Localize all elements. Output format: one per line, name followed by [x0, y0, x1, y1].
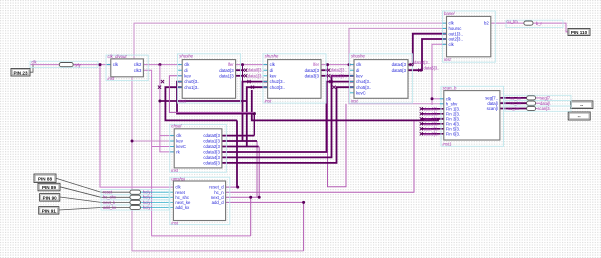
wire clk top route to banel clk [134, 23, 447, 59]
wire bus cdata3 row to shushe3 chu4 [222, 82, 354, 152]
tap data0 of shushe1 [244, 69, 247, 78]
wire bus cho3 riser to shushe2 [247, 87, 268, 146]
block U8 umshsi [170, 176, 230, 225]
svg-text:add_kx: add_kx [103, 205, 116, 210]
wire PIN 90 diagonal [60, 197, 130, 202]
pin output box seg [571, 101, 593, 109]
svg-text:out2[3..: out2[3.. [449, 37, 463, 42]
svg-text:seg[7..: seg[7.. [485, 96, 498, 101]
svg-text:--: -- [580, 103, 584, 108]
svg-text:banel: banel [444, 11, 456, 16]
pin output box scan [568, 112, 590, 120]
wire bus cdata4 row to shushe3 kev [222, 76, 354, 158]
svg-text:cdata2[3: cdata2[3 [203, 144, 220, 149]
node junction next_d a [249, 196, 252, 199]
svg-text:seg[7..: seg[7.. [540, 95, 552, 100]
buffer input add_kx [130, 205, 141, 209]
node junction clkp [431, 97, 434, 100]
wire bus data0 data1 stubs of shushe1 [236, 70, 244, 76]
wire clkdiv bottom branch loop [132, 77, 304, 251]
svg-text:clk: clk [356, 62, 362, 67]
svg-text:data4[3: data4[3 [392, 62, 407, 67]
block U2 shushe1 [178, 54, 241, 104]
svg-text:tvly: tvly [75, 62, 82, 67]
wire buffer outputs to umshsi ports [141, 192, 174, 207]
wire PIN 89 diagonal [60, 187, 130, 198]
svg-text:PIN 23: PIN 23 [13, 71, 27, 76]
svg-text:di: di [270, 68, 273, 73]
svg-text:scan[3.: scan[3. [538, 106, 551, 111]
svg-text:data4[3..: data4[3.. [414, 60, 430, 65]
svg-text:lfer: lfer [313, 62, 319, 67]
svg-text:data5[3..: data5[3.. [424, 131, 440, 136]
svg-text:PIN 91: PIN 91 [42, 209, 56, 214]
svg-text:clk: clk [270, 62, 276, 67]
svg-text:kevC: kevC [176, 144, 186, 149]
wire PIN 91 diagonal [59, 208, 130, 211]
svg-text:inst: inst [351, 99, 358, 104]
svg-text:cu_tm: cu_tm [508, 106, 520, 111]
wire bus link below shushe1 [160, 100, 247, 102]
wire bus chu0 riser to shushe1 [165, 87, 237, 120]
svg-text:kevC: kevC [356, 90, 366, 95]
wire data after buffer [536, 102, 540, 104]
svg-text:lfer: lfer [228, 62, 234, 67]
svg-text:add_kx: add_kx [175, 205, 190, 210]
wire bus cdata1 row [222, 140, 257, 142]
buffer input reset [101, 190, 169, 210]
svg-text:PIN 110: PIN 110 [571, 30, 588, 35]
wire bus cdata2 row [222, 146, 259, 148]
block U6 scan_b [440, 86, 504, 147]
svg-text:di: di [184, 68, 187, 73]
wire bus mid riser [253, 114, 255, 136]
wire bus data4 to banel out1 [408, 34, 447, 65]
svg-text:b_r: b_r [536, 21, 543, 26]
svg-text:clk_divout: clk_divout [108, 54, 128, 59]
svg-text:scan_b: scan_b [443, 86, 457, 91]
node junction clk2 b [241, 63, 244, 66]
node junction clk [99, 63, 102, 66]
svg-text:PIN 89: PIN 89 [42, 185, 56, 190]
svg-text:data0[3..: data0[3.. [248, 68, 264, 73]
pin PIN 91 input [39, 207, 59, 215]
node junction clk2 a [158, 63, 161, 66]
pin PIN 89 input [38, 183, 60, 191]
node junction chsel feed [158, 100, 161, 103]
svg-text:umshsi: umshsi [171, 176, 186, 181]
svg-text:data1[3: data1[3 [219, 73, 234, 78]
svg-text:kev: kev [356, 73, 364, 78]
svg-text:cdata3[3: cdata3[3 [203, 150, 220, 155]
buffer input hc_shc [130, 195, 141, 199]
svg-text:inst: inst [171, 168, 178, 173]
block U5 banel [443, 11, 496, 62]
wire umshsi reset_d output [226, 186, 238, 188]
svg-text:cho3[3..: cho3[3.. [270, 85, 285, 90]
svg-text:data[\: data[\ [540, 101, 551, 106]
wire label data0 data1 [248, 68, 264, 79]
svg-text:PIN 88: PIN 88 [38, 176, 52, 181]
buffer output seg [505, 95, 571, 100]
svg-text:inst1: inst1 [443, 141, 453, 146]
svg-text:cu_tm: cu_tm [510, 101, 522, 106]
svg-text:shushe: shushe [179, 54, 193, 59]
svg-text:data0[3: data0[3 [219, 68, 234, 73]
svg-text:cu_tm: cu_tm [507, 19, 519, 24]
svg-text:chsel: chsel [171, 124, 182, 129]
wire PIN 88 diagonal [56, 178, 130, 192]
wire bus cdata5 row to shushe3 cho5 [222, 87, 354, 163]
svg-text:data5[3..: data5[3.. [424, 66, 440, 71]
svg-text:cdata0[3: cdata0[3 [203, 133, 220, 138]
wire bus data2 data3 stubs of shushe2 [321, 70, 327, 76]
wire label data4 data5 [414, 60, 439, 71]
svg-text:data2[3..: data2[3.. [331, 68, 347, 73]
wire bus scan output [500, 108, 527, 110]
svg-text:shushe: shushe [265, 54, 279, 59]
svg-text:cho1[3..: cho1[3.. [184, 85, 199, 90]
node junction add_d [302, 201, 305, 204]
svg-text:data5[3: data5[3 [392, 68, 407, 73]
wire umshsi add_d output [226, 202, 304, 251]
buffer input next_k [130, 200, 141, 204]
svg-text:clk: clk [176, 133, 182, 138]
svg-text:kev: kev [184, 73, 192, 78]
wire scan after buffer [536, 108, 538, 110]
svg-text:data3[3..: data3[3.. [331, 73, 347, 78]
node junction bus tap a [253, 112, 256, 115]
svg-text:inst: inst [108, 76, 115, 81]
svg-text:cho5[3..: cho5[3.. [356, 85, 371, 90]
svg-text:clk3: clk3 [134, 68, 142, 73]
wire umshsi next_d output [226, 141, 260, 236]
svg-text:inst: inst [171, 220, 178, 225]
node junction reset_d [236, 186, 239, 189]
svg-text:Fin 6[3.: Fin 6[3. [446, 131, 460, 136]
wire bus cho1 riser to shushe1 [177, 82, 254, 114]
wire clk vertical branch down to umshsi clk [100, 65, 173, 188]
buffer output data [505, 101, 571, 106]
tap Fin inputs of scan_b [420, 107, 423, 135]
svg-text:PIN 90: PIN 90 [43, 196, 57, 201]
wire PIN 23 stub [30, 65, 33, 73]
wire clk3 long vertical via kevC [143, 70, 250, 236]
pin PIN 90 input [40, 194, 60, 202]
svg-text:chu4[3..: chu4[3.. [356, 79, 371, 84]
pin PIN 110 output [568, 29, 590, 36]
svg-text:clk: clk [449, 42, 455, 47]
tap data4 data5 of shushe3 [410, 63, 422, 72]
wire chsel clk and rk feed [160, 65, 174, 152]
svg-text:cu_tm: cu_tm [510, 95, 522, 100]
svg-text:scan[\: scan[\ [487, 106, 499, 111]
buffer input clk [30, 61, 98, 67]
svg-text:clk: clk [184, 62, 190, 67]
svg-text:kev: kev [270, 73, 278, 78]
node junction kev branch [131, 140, 134, 143]
svg-text:di: di [356, 68, 359, 73]
svg-text:add_d: add_d [212, 200, 225, 205]
wire bus seg output [500, 97, 527, 99]
svg-text:kev: kev [176, 139, 184, 144]
node junction next_d b [258, 196, 261, 199]
wire bus Fin input stubs of scan_b [421, 109, 444, 134]
block U1 clk_divout [106, 54, 148, 81]
wire bus cdata0 row down to reset_d [222, 120, 254, 187]
tap chu cho of shushe3 [329, 80, 335, 89]
svg-text:data3[3: data3[3 [305, 73, 320, 78]
wire bus data output [500, 102, 527, 104]
svg-text:cdata1[3: cdata1[3 [203, 139, 220, 144]
wire b2 output to PIN 110 [491, 23, 568, 32]
wire bus chu2 riser to shushe2 [243, 65, 268, 141]
wire seg after buffer [536, 97, 540, 99]
svg-text:--: -- [578, 114, 582, 119]
wire clk net from PIN 23 to buffer to clkdiv [30, 64, 111, 66]
wire clk2 row between blocks [143, 64, 354, 66]
svg-text:hc/y: hc/y [143, 205, 151, 210]
node junction clk2 tap d [348, 63, 351, 66]
svg-text:chu0[3..: chu0[3.. [184, 79, 199, 84]
wire label data2 data3 [331, 68, 347, 79]
tap chu cho of shushe1 [158, 80, 164, 89]
block U3 shushe2 [263, 54, 326, 104]
svg-text:hoursc: hoursc [449, 26, 463, 31]
wire bus long row to scan_b Fin3 [252, 90, 444, 120]
svg-text:inst: inst [444, 57, 451, 62]
svg-text:cdata5[3: cdata5[3 [203, 161, 220, 166]
svg-text:chu2[3..: chu2[3.. [270, 79, 285, 84]
svg-text:b2: b2 [484, 21, 489, 26]
svg-text:clk: clk [449, 21, 455, 26]
svg-text:data[\: data[\ [487, 101, 499, 106]
wire umshsi hc_n output loop [226, 65, 414, 193]
svg-text:cdata4[3: cdata4[3 [203, 155, 220, 160]
tap chu cho of shushe2 [247, 80, 254, 89]
svg-text:data2[3: data2[3 [305, 68, 320, 73]
buffer output scan [505, 106, 571, 111]
wire hoursc h_shv net [349, 28, 447, 103]
buffer output b2 [506, 20, 563, 27]
block U7 chsel [170, 124, 227, 173]
svg-text:clk2: clk2 [134, 62, 142, 67]
svg-text:shushe: shushe [351, 54, 365, 59]
wire label Fin inputs [424, 106, 440, 136]
pin PIN 88 input [34, 174, 56, 183]
svg-text:inst: inst [265, 99, 272, 104]
wire bus kev riser thin [169, 76, 254, 113]
wire bus data5 to banel out2 [408, 39, 447, 70]
wire clkp net to banel and scan_b clk [432, 44, 447, 105]
tap data2 data3 of shushe2 [327, 69, 330, 78]
pin PIN 23 input [11, 69, 30, 77]
svg-text:out1[3..: out1[3.. [449, 31, 463, 36]
svg-text:data1[3..: data1[3.. [248, 73, 264, 78]
svg-text:clk: clk [113, 62, 119, 67]
node junction clk2 tap c [326, 63, 329, 66]
svg-text:inst: inst [179, 99, 186, 104]
block U4 shushe3 [349, 54, 412, 104]
